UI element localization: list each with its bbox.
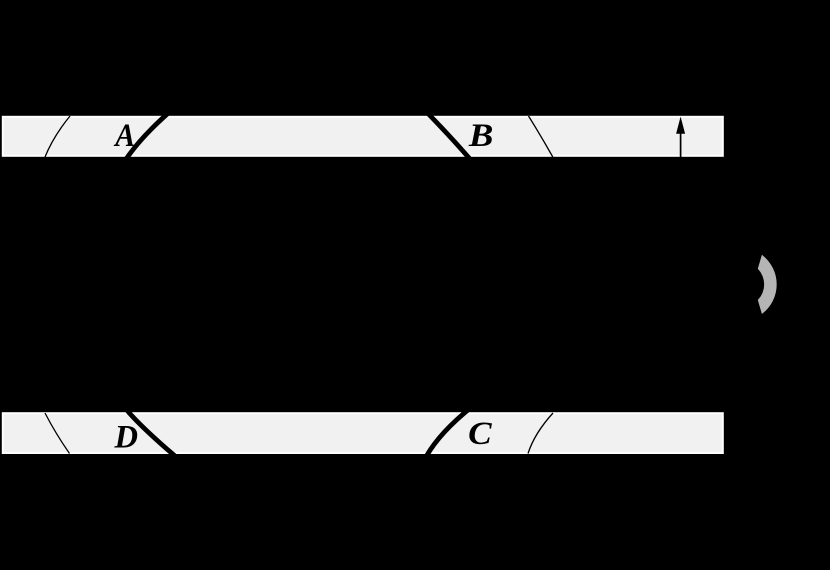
svg-text:C: C (468, 416, 493, 452)
svg-text:B: B (468, 118, 494, 154)
svg-text:A: A (113, 118, 135, 154)
svg-text:D: D (114, 420, 139, 456)
